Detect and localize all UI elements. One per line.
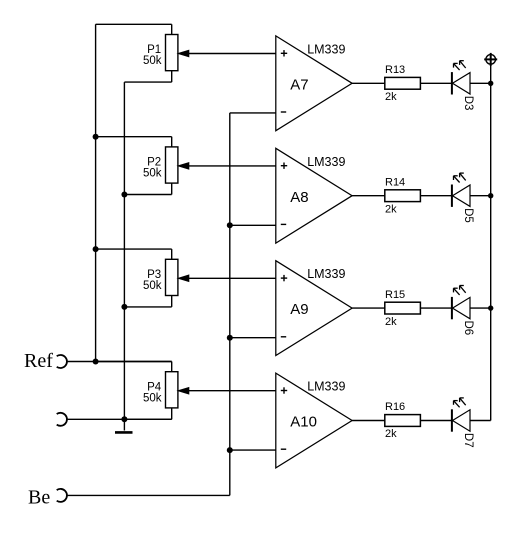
svg-text:2k: 2k [385,203,397,215]
svg-text:50k: 50k [143,280,162,292]
svg-text:D7: D7 [462,433,474,448]
svg-text:LM339: LM339 [307,380,345,394]
svg-text:D6: D6 [462,321,474,336]
svg-text:R13: R13 [385,64,405,76]
svg-text:A7: A7 [290,76,308,93]
svg-text:2k: 2k [385,91,397,103]
svg-text:A8: A8 [290,189,308,206]
svg-text:2k: 2k [385,428,397,440]
svg-text:LM339: LM339 [307,155,345,169]
svg-text:LM339: LM339 [307,42,345,56]
svg-text:D5: D5 [462,208,474,223]
svg-text:A9: A9 [290,301,308,318]
svg-text:D3: D3 [462,96,474,111]
svg-text:R15: R15 [385,289,405,301]
svg-text:2k: 2k [385,316,397,328]
svg-text:Be: Be [28,486,50,508]
svg-text:50k: 50k [143,55,162,67]
svg-text:A10: A10 [290,414,317,431]
svg-text:R16: R16 [385,401,405,413]
svg-text:LM339: LM339 [307,267,345,281]
svg-text:Ref: Ref [24,350,53,372]
svg-text:R14: R14 [385,176,405,188]
svg-text:50k: 50k [143,392,162,404]
svg-text:50k: 50k [143,168,162,180]
